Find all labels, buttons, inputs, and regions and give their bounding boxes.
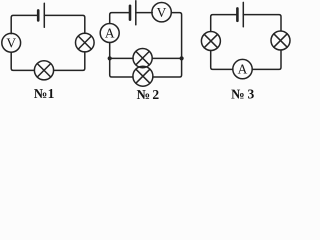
wire top-right segment circuit 3 [243,15,281,31]
junction node right circuit 2 [180,56,184,60]
voltmeter V circle circuit 2 [152,3,171,22]
svg-text:V: V [6,35,16,50]
wire top-left segment circuit 3 [211,15,237,32]
lamp L6 circuit 3 right [271,31,290,50]
label No 1 [34,86,55,101]
wire lower branch right circuit 2 [153,58,182,77]
label No 2 [137,87,160,102]
wire bottom-right segment circuit 1 [54,52,85,71]
svg-text:1: 1 [48,86,55,101]
wire left-bottom segment circuit 1 [11,52,34,70]
circuit 1 [2,3,94,80]
lamp L5 circuit 3 left [201,32,220,51]
label No 3 [231,86,255,101]
wire upper branch left circuit 2 [110,57,133,59]
svg-text:V: V [157,5,167,20]
wire voltmeter to right corner circuit 2 [171,13,181,59]
lamp L2 circuit 1 bottom [34,61,53,80]
lamp L1 circuit 1 right [76,33,95,52]
junction node left circuit 2 [108,56,112,60]
svg-text:№: № [137,87,151,102]
ammeter A circle circuit 3 [233,59,252,78]
lamp L4 circuit 2 lower [133,66,153,86]
wire top-left segment circuit 2 [110,13,129,24]
svg-text:3: 3 [248,86,255,101]
wire top-left segment circuit 1 [11,15,37,33]
circuit 3 [201,2,290,78]
wire left-bottom segment circuit 3 [211,51,233,70]
svg-text:№: № [34,86,48,101]
lamp L3 circuit 2 upper [133,49,152,68]
wire upper branch right circuit 2 [152,57,181,59]
battery B2 long plate (positive) [135,1,137,25]
battery B3 short plate (negative) [236,8,239,20]
battery B2 short plate (negative) [129,6,132,20]
svg-text:№: № [231,86,245,101]
wire bottom-right segment circuit 3 [252,50,281,69]
svg-text:2: 2 [152,87,159,102]
wire battery to voltmeter circuit 2 [136,12,152,14]
battery B3 long plate (positive) [242,2,244,26]
wire top-right segment circuit 1 [44,15,85,33]
svg-text:A: A [238,62,248,77]
battery B1 short plate (negative) [37,10,40,20]
battery B1 long plate (positive) [43,3,45,27]
wire lower branch left circuit 2 [110,58,133,77]
ammeter A circle circuit 2 [100,24,119,43]
svg-text:A: A [105,26,115,41]
voltmeter V circle circuit 1 [2,33,21,52]
circuit 2 [100,1,184,86]
wire ammeter to left junction circuit 2 [109,43,111,59]
